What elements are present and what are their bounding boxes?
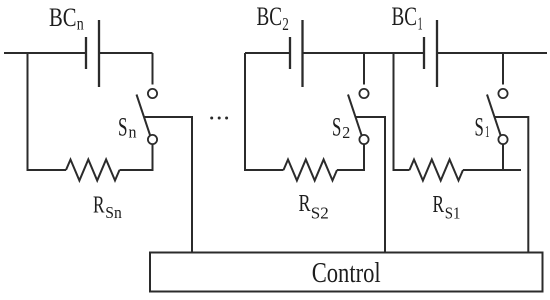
svg-text:BC: BC <box>392 2 418 31</box>
svg-text:n: n <box>129 123 137 142</box>
svg-text:Sn: Sn <box>105 203 122 222</box>
wire S2 control tap <box>356 117 386 253</box>
svg-text:2: 2 <box>282 14 289 34</box>
svg-text:R: R <box>93 193 105 219</box>
wire RS2 to S2 bottom <box>337 144 364 170</box>
svg-text:S: S <box>118 113 128 142</box>
svg-text:S2: S2 <box>311 204 329 223</box>
wire left branch of cell 1 loop <box>394 53 410 170</box>
control block box <box>150 253 543 292</box>
switch Sn <box>137 53 158 144</box>
wire S1 control tap <box>495 117 529 253</box>
svg-text:1: 1 <box>418 14 423 34</box>
svg-text:S1: S1 <box>445 204 461 223</box>
switch S2 <box>348 53 369 144</box>
wire RSn to Sn bottom <box>120 144 153 170</box>
wire top bus segment left of BCn <box>4 52 86 54</box>
wire top bus BC2 to BC1 <box>303 52 425 54</box>
wire Sn control tap <box>144 117 192 253</box>
wire RS1 to node under S1 <box>463 169 521 171</box>
wire left branch of cell 2 loop <box>245 53 284 170</box>
wire top bus BCn to Sn drop <box>99 52 153 54</box>
battery BC2 <box>290 20 303 87</box>
wire S1 bottom stub <box>502 144 504 170</box>
node dots ellipsis between stages <box>210 117 228 120</box>
svg-text:2: 2 <box>342 123 350 142</box>
resistor RSn <box>66 160 120 181</box>
switch S1 <box>487 53 508 144</box>
svg-text:R: R <box>433 192 445 218</box>
svg-text:S: S <box>332 113 341 142</box>
svg-text:BC: BC <box>49 3 77 32</box>
svg-text:R: R <box>299 191 311 217</box>
svg-text:BC: BC <box>257 2 283 31</box>
svg-text:S: S <box>475 113 484 142</box>
wire left branch of cell n loop <box>28 53 67 170</box>
wire top bus right of BC1 <box>437 52 547 54</box>
battery BC1 <box>424 20 437 87</box>
svg-text:Control: Control <box>312 258 381 289</box>
resistor RS2 <box>284 160 338 181</box>
wire top bus left of BC2 <box>245 52 290 54</box>
svg-text:n: n <box>77 14 84 34</box>
battery BCn <box>86 20 99 87</box>
resistor RS1 <box>410 160 464 181</box>
svg-text:1: 1 <box>485 122 490 141</box>
